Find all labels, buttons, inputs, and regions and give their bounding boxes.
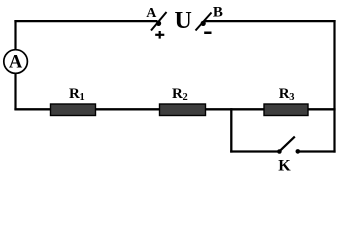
- svg-text:3: 3: [289, 92, 294, 103]
- wire: left vertical (top-left corner down to bottom wire): [14, 20, 16, 110]
- wire: branch vertical down from junction: [230, 108, 232, 152]
- wire: top-right horizontal (from terminal B to top-right corner): [204, 20, 336, 22]
- wire: top-left horizontal (from top-left corner to terminal A): [14, 20, 157, 22]
- svg-text:R: R: [279, 86, 290, 102]
- resistor R2: [160, 104, 206, 116]
- resistor R1: [51, 104, 96, 116]
- label R1: [69, 86, 85, 103]
- svg-text:1: 1: [80, 92, 85, 103]
- svg-text:K: K: [278, 158, 291, 174]
- terminal A: slash: [151, 12, 167, 31]
- polarity − (under terminal B): [204, 32, 211, 35]
- svg-text:A: A: [9, 53, 23, 73]
- switch K: lever: [280, 137, 295, 151]
- switch K: right contact dot: [296, 149, 301, 154]
- resistor R3: [264, 104, 308, 116]
- label R3: [279, 86, 295, 103]
- ammeter A (circle with letter): [4, 50, 28, 74]
- switch K: left contact dot: [277, 149, 282, 154]
- terminal B: slash: [196, 13, 212, 31]
- wire: right vertical (top-right corner down to switch branch): [333, 20, 335, 153]
- svg-text:B: B: [213, 4, 223, 20]
- svg-text:R: R: [69, 86, 80, 102]
- polarity + (under terminal A): [155, 31, 164, 39]
- wire: switch branch horizontal left segment: [230, 150, 278, 152]
- label R2: [172, 86, 188, 103]
- terminal B: dot: [201, 21, 206, 26]
- wire: switch branch horizontal right segment: [299, 150, 336, 152]
- svg-text:R: R: [172, 86, 183, 102]
- svg-text:U: U: [175, 8, 192, 34]
- svg-text:2: 2: [183, 92, 188, 103]
- wire: bottom main horizontal (through R1, R2, R3): [14, 108, 335, 110]
- terminal A: dot: [156, 21, 161, 26]
- svg-text:A: A: [146, 6, 157, 21]
